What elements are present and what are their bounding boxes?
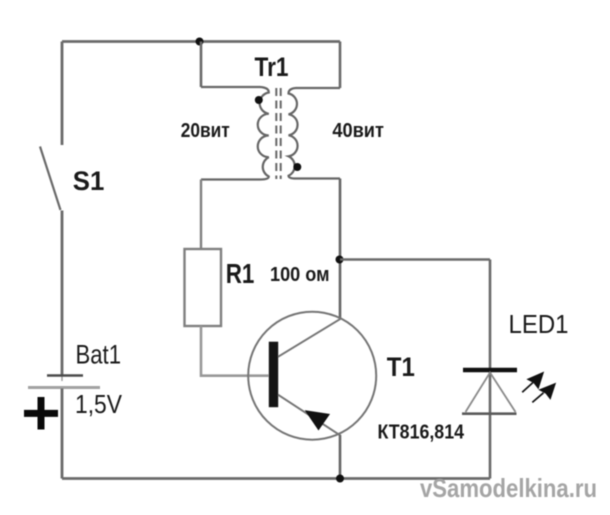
svg-text:КТ816,814: КТ816,814 — [378, 422, 465, 444]
svg-text:20вит: 20вит — [181, 119, 230, 142]
resistor R1 body — [185, 249, 222, 326]
wire transformer right drop — [339, 42, 342, 89]
LED1 triangle — [466, 373, 516, 413]
transistor T1 body circle — [248, 312, 376, 440]
wire left rail lower — [61, 389, 64, 479]
battery Bat1 bottom plate — [28, 386, 100, 389]
transistor T1 collector lead — [278, 319, 341, 357]
transformer Tr1 primary winding (20 turns) — [201, 87, 269, 180]
svg-text:vSamodelkina.ru: vSamodelkina.ru — [420, 473, 597, 503]
wire resistor to transistor base — [201, 326, 269, 376]
wire battery stub — [61, 375, 63, 381]
wire bottom rail — [62, 477, 490, 480]
LED1 cathode bar — [463, 368, 517, 372]
switch S1 blade — [40, 147, 61, 211]
LED1 light arrow 1 head — [528, 373, 543, 388]
svg-text:Bat1: Bat1 — [76, 340, 122, 370]
transistor T1 emitter arrow — [306, 411, 329, 430]
wire secondary bottom drop — [339, 179, 342, 319]
wire primary bottom to resistor — [200, 180, 202, 250]
LED1 light arrow 2 tail — [532, 393, 543, 403]
wire emitter to bottom rail — [339, 435, 342, 479]
node junction top — [196, 38, 204, 46]
wire junction to LED — [340, 258, 490, 261]
svg-text:R1: R1 — [226, 258, 255, 289]
node junction emitter-bottom — [336, 475, 344, 483]
transformer secondary phase dot — [293, 163, 301, 171]
svg-text:100 ом: 100 ом — [270, 264, 330, 286]
wire primary drop from top junction — [200, 42, 203, 88]
battery polarity plus sign — [24, 397, 58, 430]
transistor T1 emitter lead — [278, 395, 341, 436]
LED1 anode line — [462, 412, 517, 415]
svg-text:40вит: 40вит — [332, 119, 384, 142]
wire left rail middle — [61, 211, 64, 376]
transistor T1 base bar — [269, 342, 278, 408]
svg-text:Tr1: Tr1 — [255, 52, 289, 82]
LED1 light arrow 1 tail — [522, 383, 533, 393]
battery Bat1 top plate — [47, 374, 83, 377]
LED1 light arrow 2 head — [540, 384, 555, 399]
svg-text:T1: T1 — [387, 352, 415, 382]
svg-text:1,5V: 1,5V — [75, 391, 122, 419]
transformer primary phase dot — [255, 96, 263, 104]
wire top rail — [62, 40, 340, 43]
wire LED drop — [489, 260, 492, 479]
node junction collector-LED — [336, 256, 344, 264]
svg-text:S1: S1 — [73, 166, 105, 196]
wire left rail upper — [61, 42, 64, 146]
svg-text:LED1: LED1 — [509, 311, 569, 339]
transformer Tr1 secondary winding (40 turns) — [289, 88, 341, 179]
transformer Tr1 core — [276, 88, 280, 179]
